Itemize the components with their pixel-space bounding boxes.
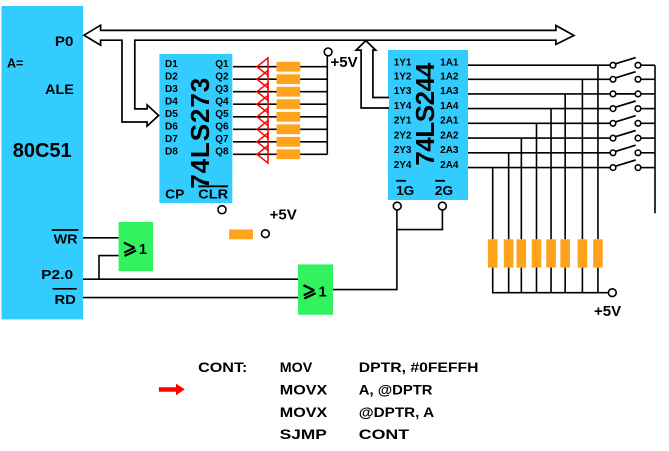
svg-text:MOV: MOV — [280, 359, 313, 375]
resistor R5 — [277, 112, 301, 122]
svg-text:Q7: Q7 — [215, 134, 229, 145]
svg-text:2G: 2G — [435, 183, 453, 198]
svg-text:P0: P0 — [55, 33, 74, 49]
switch S2 open — [610, 72, 655, 82]
svg-text:Q5: Q5 — [215, 109, 229, 120]
svg-text:1A3: 1A3 — [440, 86, 459, 97]
pin 1G terminal — [393, 202, 401, 210]
wire 2A1 to switch S5 — [468, 122, 610, 124]
wire P2.0 branch to gate G1 — [99, 256, 119, 280]
wire Q4 — [233, 103, 327, 105]
wire 2A3 to switch S7 — [468, 152, 610, 154]
wire RP1 to +5V rail — [597, 268, 599, 293]
svg-text:MOVX: MOVX — [280, 382, 328, 398]
or-gate G2 — [298, 264, 333, 314]
svg-text:CONT: CONT — [359, 426, 410, 442]
wire RP4 to +5V rail — [550, 268, 552, 293]
LED D3 — [257, 83, 268, 101]
wire Q3 — [233, 91, 327, 93]
resistor RP5 pull-up — [532, 239, 542, 267]
buffer U3 74LS244 — [388, 50, 468, 200]
svg-text:P2.0: P2.0 — [41, 267, 73, 282]
svg-text:+5V: +5V — [331, 54, 358, 71]
wire RP3 to +5V rail — [564, 268, 566, 293]
switch S8 open — [610, 160, 655, 170]
svg-text:Q8: Q8 — [215, 147, 229, 158]
wire 1A3 to switch S3 — [468, 93, 610, 95]
resistor R9 CLR pull-up — [229, 230, 253, 240]
LED D7 — [257, 133, 268, 151]
svg-text:D4: D4 — [165, 96, 178, 107]
svg-text:ALE: ALE — [45, 81, 74, 97]
LED D4 — [257, 95, 268, 113]
wire Q5 — [233, 116, 327, 118]
svg-text:A, @DPTR: A, @DPTR — [359, 382, 433, 398]
wire 1A1 to switch S1 — [468, 64, 610, 66]
svg-text:1G: 1G — [396, 183, 414, 198]
resistor R7 — [277, 137, 301, 147]
switch S7 open — [610, 145, 655, 155]
wire WR — [83, 237, 119, 239]
resistor RP8 pull-up — [488, 239, 498, 267]
svg-text:Q3: Q3 — [215, 84, 229, 95]
bus branch arrow from 74LS244 up to P0 bus — [356, 41, 389, 108]
wire RP5 to +5V rail — [536, 268, 538, 293]
wire RP6 to +5V rail — [520, 268, 522, 293]
wire 2A2 drop to resistor — [520, 138, 522, 239]
svg-text:2A2: 2A2 — [440, 130, 459, 141]
svg-text:1A4: 1A4 — [440, 101, 459, 112]
svg-text:A=: A= — [7, 57, 23, 71]
svg-text:1: 1 — [139, 242, 147, 258]
svg-text:WR: WR — [54, 232, 79, 247]
resistor R3 — [277, 87, 301, 97]
wire 1A2 drop to resistor — [581, 79, 583, 239]
wire P2.0 — [83, 278, 298, 280]
LED D1 — [257, 58, 268, 76]
wire +5V rail for LEDs — [326, 56, 328, 154]
bus P0 double-headed arrow with branch to 74LS273 — [84, 25, 574, 126]
wire 1A4 drop to resistor — [550, 109, 552, 240]
wire Q6 — [233, 128, 327, 130]
wire Q1 — [233, 66, 327, 68]
svg-text:74LS244: 74LS244 — [410, 62, 440, 166]
svg-text:+5V: +5V — [270, 206, 297, 223]
svg-text:D5: D5 — [165, 109, 178, 120]
resistor RP3 pull-up — [560, 239, 570, 267]
svg-text:Q1: Q1 — [215, 59, 229, 70]
terminal +5V (switch pull-ups) — [594, 289, 621, 320]
wire 1A1 drop to resistor — [597, 65, 599, 239]
resistor R2 — [277, 74, 301, 84]
svg-text:SJMP: SJMP — [280, 426, 327, 442]
wire +5V rail bottom — [492, 292, 608, 294]
LED D5 — [257, 108, 268, 126]
switch S3 closed — [610, 91, 655, 97]
switch S5 open — [610, 116, 655, 126]
terminal +5V (LED rail) — [324, 48, 357, 71]
wire 2A2 to switch S6 — [468, 137, 610, 139]
resistor R4 — [277, 99, 301, 109]
svg-text:2A1: 2A1 — [440, 116, 459, 127]
svg-text:2A4: 2A4 — [440, 160, 459, 171]
resistor R6 — [277, 124, 301, 134]
wire RP7 to +5V rail — [508, 268, 510, 293]
marker current-instruction arrow (red) — [159, 384, 185, 396]
wire 2A4 to switch S8 — [468, 167, 610, 169]
svg-text:D2: D2 — [165, 71, 178, 82]
LED D8 — [257, 146, 268, 164]
wire 1A2 to switch S2 — [468, 78, 610, 80]
resistor RP2 pull-up — [578, 239, 588, 267]
svg-text:1A1: 1A1 — [440, 57, 459, 68]
label A= (red) — [7, 57, 23, 71]
latch U2 74LS273 — [159, 54, 232, 203]
resistor RP4 pull-up — [546, 239, 556, 267]
wire 1A3 drop to resistor — [564, 94, 566, 239]
resistor R8 — [277, 149, 301, 159]
svg-text:1A2: 1A2 — [440, 72, 459, 83]
pin CLR terminal — [218, 206, 226, 214]
svg-text:CP: CP — [165, 187, 184, 202]
or-gate G1 — [119, 222, 153, 271]
wire Q2 — [233, 78, 327, 80]
svg-text:+5V: +5V — [594, 303, 621, 320]
svg-text:DPTR, #0FEFFH: DPTR, #0FEFFH — [359, 359, 479, 375]
svg-text:D6: D6 — [165, 122, 178, 133]
svg-text:D8: D8 — [165, 147, 178, 158]
wire Q8 — [233, 153, 327, 155]
switch S4 open — [610, 101, 655, 111]
program listing — [198, 359, 478, 442]
resistor RP1 pull-up — [593, 239, 603, 267]
resistor RP6 pull-up — [517, 239, 527, 267]
wire 2A4 drop to resistor — [492, 168, 494, 240]
wire RP8 to +5V rail — [492, 268, 494, 293]
wire RD — [83, 297, 298, 299]
LED D6 — [257, 121, 268, 139]
svg-text:MOVX: MOVX — [280, 404, 328, 420]
wire G2 output to 1G/2G — [333, 210, 442, 289]
svg-text:2A3: 2A3 — [440, 145, 459, 156]
resistor R1 — [277, 62, 301, 72]
wire 1A4 to switch S4 — [468, 108, 610, 110]
svg-text:Q2: Q2 — [215, 71, 229, 82]
wire 2A1 drop to resistor — [536, 123, 538, 239]
svg-text:Q6: Q6 — [215, 122, 229, 133]
switch S6 open — [610, 131, 655, 141]
resistor RP7 pull-up — [504, 239, 514, 267]
wire Q7 — [233, 141, 327, 143]
pin 2G terminal — [439, 202, 447, 210]
svg-text:D3: D3 — [165, 84, 178, 95]
terminal +5V (CLR pull-up) — [262, 206, 297, 237]
wire 2A3 drop to resistor — [508, 153, 510, 240]
svg-text:D7: D7 — [165, 134, 178, 145]
svg-text:D1: D1 — [165, 59, 178, 70]
svg-text:Q4: Q4 — [215, 96, 229, 107]
svg-text:74LS273: 74LS273 — [185, 78, 215, 189]
svg-text:1: 1 — [319, 284, 327, 300]
svg-text:80C51: 80C51 — [13, 139, 72, 162]
switch S1 open — [610, 58, 655, 68]
LED D2 — [257, 70, 268, 88]
svg-text:RD: RD — [55, 292, 76, 307]
wire RP2 to +5V rail — [581, 268, 583, 293]
svg-text:@DPTR, A: @DPTR, A — [359, 404, 434, 420]
wire switch common rail — [654, 65, 656, 213]
svg-text:CONT:: CONT: — [198, 359, 247, 375]
MCU U1 80C51 — [2, 6, 84, 319]
